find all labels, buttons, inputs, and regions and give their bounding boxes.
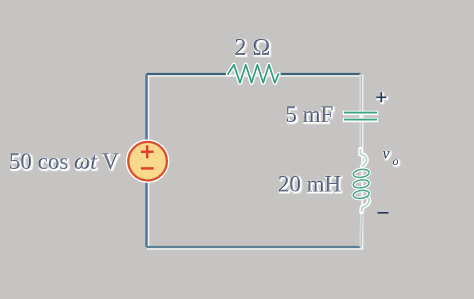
wire white connector between capacitor plates (359, 113, 361, 120)
node label vo (383, 146, 399, 169)
voltage source circle (128, 142, 167, 181)
svg-text:o: o (393, 154, 399, 168)
inductor L 20mH coil (353, 149, 370, 212)
wire emboss (white shadow of circuit loop) (148, 76, 362, 249)
resistor label 2 ohm (235, 35, 272, 62)
svg-text:50 cos ωt V: 50 cos ωt V (10, 150, 120, 175)
plus sign (capacitor polarity) (376, 92, 386, 102)
svg-text:2 Ω: 2 Ω (235, 36, 271, 62)
svg-text:5 mF: 5 mF (286, 103, 334, 128)
resistor R 2ohm zigzag (228, 65, 279, 83)
wire left segment (145, 74, 148, 247)
svg-text:v: v (383, 146, 391, 163)
minus sign inside source (141, 167, 154, 170)
minus sign (inductor polarity) (378, 212, 389, 214)
inductor label 20 mH (278, 172, 342, 198)
source label 50 cos wt V (9, 149, 120, 175)
capacitor C 5mF plates (343, 113, 378, 120)
wire top segment right of resistor (278, 73, 361, 75)
wire right segment lower (inductor to corner) (359, 207, 362, 247)
wire right segment upper (corner to capacitor) (359, 74, 361, 113)
wire right segment middle (capacitor to inductor) (359, 121, 361, 152)
plus sign inside source (141, 145, 154, 158)
svg-text:20 mH: 20 mH (279, 172, 342, 197)
wire top segment (147, 73, 229, 75)
wire bottom segment (147, 246, 361, 248)
capacitor label 5 mF (286, 102, 335, 128)
